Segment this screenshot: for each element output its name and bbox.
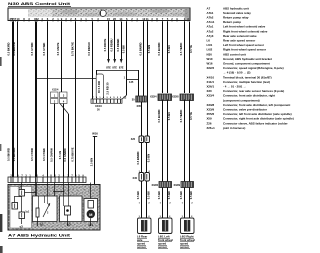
connector X33/4 bbox=[150, 90, 172, 100]
wires: N30 pins to A7 connector strip (left group) bbox=[7, 22, 48, 178]
connector X53 bbox=[131, 136, 150, 143]
svg-text:X4/10: X4/10 bbox=[207, 75, 215, 79]
svg-text:0.5 GY/BK: 0.5 GY/BK bbox=[42, 42, 46, 55]
solenoid valve A7y2 bbox=[11, 196, 22, 209]
svg-text:ABS control unit: ABS control unit bbox=[223, 52, 246, 56]
svg-text:Connector, right front axle di: Connector, right front axle distributor … bbox=[223, 117, 294, 121]
svg-text:X30: X30 bbox=[133, 177, 138, 180]
svg-text:0.5 BN/RD: 0.5 BN/RD bbox=[139, 42, 143, 55]
connector X33/8 bbox=[172, 90, 194, 100]
svg-text:A7y2: A7y2 bbox=[207, 29, 214, 33]
svg-text:0.5 BK: 0.5 BK bbox=[157, 191, 161, 199]
svg-text:y3: y3 bbox=[20, 224, 24, 228]
svg-text:0.5 YE: 0.5 YE bbox=[189, 112, 193, 120]
svg-text:Z26: Z26 bbox=[131, 138, 136, 141]
wire: bus to A7 strip junction bbox=[37, 78, 96, 80]
svg-text:Connector, valve pre-distribut: Connector, valve pre-distributor bbox=[223, 108, 268, 112]
svg-text:0.5 BK: 0.5 BK bbox=[189, 191, 193, 199]
svg-text:0.5 GN/WH: 0.5 GN/WH bbox=[50, 148, 54, 162]
A7 inner panel left bbox=[10, 187, 32, 229]
svg-text:joint in harness): joint in harness) bbox=[222, 126, 245, 130]
svg-text:0.5 BN: 0.5 BN bbox=[146, 154, 150, 162]
relay A7k1 bbox=[33, 183, 58, 227]
svg-text:L6/2: L6/2 bbox=[207, 48, 213, 52]
wires X30 to sensor L6 bbox=[136, 181, 150, 218]
svg-text:L6/1: L6/1 bbox=[207, 43, 213, 47]
svg-text:0.5 BK: 0.5 BK bbox=[167, 191, 171, 199]
wire to terminal 87E (1) bbox=[103, 22, 111, 70]
wires N30 pins 1/3 down (L6/2 circuit) bbox=[179, 22, 193, 94]
svg-text:X11/4: X11/4 bbox=[207, 80, 215, 84]
speed sensor L6/2 bbox=[181, 218, 195, 234]
svg-text:X35: X35 bbox=[137, 105, 142, 108]
svg-text:A7m1: A7m1 bbox=[207, 20, 215, 24]
svg-text:X33/8: X33/8 bbox=[172, 95, 179, 98]
svg-text:0.75 BK/YE: 0.75 BK/YE bbox=[71, 147, 75, 161]
svg-text:Connector, speed signal (RA/en: Connector, speed signal (RA/engine, 8-po… bbox=[223, 66, 284, 70]
svg-text:2.5 BN: 2.5 BN bbox=[90, 158, 94, 166]
wire X11/4 pin 4 down bbox=[58, 104, 63, 178]
ground W16 bbox=[90, 132, 99, 185]
svg-text:Return pump relay: Return pump relay bbox=[223, 16, 249, 20]
A7 ABS hydraulic unit box bbox=[8, 185, 100, 231]
diagonal wire X11/4 to A7 bbox=[60, 104, 69, 178]
svg-text:Connector, multiple function (: Connector, multiple function (test) bbox=[223, 80, 270, 84]
svg-text:0.5 BK: 0.5 BK bbox=[121, 45, 125, 53]
svg-text:Terminal block, terminal 30 (6: Terminal block, terminal 30 (61e/87) bbox=[223, 75, 272, 79]
svg-text:0.5 BK: 0.5 BK bbox=[179, 191, 183, 199]
svg-text:- 4 → 01 - 2/91 →: - 4 → 01 - 2/91 → bbox=[223, 85, 246, 89]
wires X33/8 to X33/9 bbox=[179, 100, 193, 182]
wires X33/6 to sensor L6/1 bbox=[157, 188, 171, 219]
svg-text:Z26: Z26 bbox=[207, 121, 212, 125]
svg-text:0.5 GN/RD: 0.5 GN/RD bbox=[63, 148, 67, 161]
wires X33/9 to sensor L6/2 bbox=[179, 188, 193, 219]
terminal 30 label box bbox=[96, 74, 103, 99]
svg-text:X59: X59 bbox=[207, 117, 213, 121]
wire pin 6 to X4/10 bbox=[121, 22, 126, 100]
svg-text:Left front wheel solenoid valv: Left front wheel solenoid valve bbox=[223, 25, 266, 29]
svg-text:30 0.5 RD: 30 0.5 RD bbox=[97, 81, 101, 93]
wire pin 9 to connector X11/4 bbox=[56, 22, 61, 93]
svg-text:135: 135 bbox=[129, 80, 134, 84]
wires N30 pins 12/11 down (L6 circuit) bbox=[139, 22, 151, 137]
svg-text:W10: W10 bbox=[207, 57, 213, 61]
svg-text:Solenoid valve relay: Solenoid valve relay bbox=[223, 11, 251, 15]
bus riser bbox=[96, 70, 139, 79]
label: N30 ABS Control Unit bbox=[8, 1, 71, 7]
svg-text:1y1: 1y1 bbox=[25, 210, 30, 213]
svg-text:X33/4: X33/4 bbox=[207, 94, 215, 98]
svg-text:0.5 BN/RD: 0.5 BN/RD bbox=[136, 151, 140, 164]
svg-text:0.5 BU: 0.5 BU bbox=[167, 112, 171, 120]
svg-text:N30 ABS Control Unit: N30 ABS Control Unit bbox=[8, 1, 71, 6]
svg-text:0.5 GN: 0.5 GN bbox=[58, 151, 62, 160]
solenoid valve A7y3 bbox=[19, 196, 30, 229]
svg-text:0.5 BK/RD: 0.5 BK/RD bbox=[7, 42, 11, 55]
wire pin 5 to X4/10 strip bbox=[87, 22, 93, 100]
svg-text:0.5 BK/WH: 0.5 BK/WH bbox=[12, 42, 16, 56]
speed sensor L6/1 bbox=[159, 218, 173, 234]
connector X30 bbox=[133, 171, 151, 181]
solenoid valve A7y1 bbox=[18, 183, 25, 197]
svg-text:(component compartment): (component compartment) bbox=[223, 98, 260, 102]
svg-text:X22/2: X22/2 bbox=[207, 66, 215, 70]
wires N30 pins 7/5 down (L6/1 circuit) bbox=[157, 22, 171, 94]
svg-text:Return pump: Return pump bbox=[223, 20, 241, 24]
svg-text:X30: X30 bbox=[207, 89, 213, 93]
svg-text:0.5 YE/RD: 0.5 YE/RD bbox=[179, 110, 183, 123]
connector X11/4 bbox=[51, 89, 68, 104]
svg-text:0.5 GN/YE: 0.5 GN/YE bbox=[56, 42, 60, 55]
svg-text:0.5 GY/BK: 0.5 GY/BK bbox=[42, 148, 46, 161]
svg-text:87E: 87E bbox=[119, 66, 124, 70]
svg-text:N30: N30 bbox=[207, 52, 213, 56]
svg-text:Connector, front axle distribu: Connector, front axle distributor, left … bbox=[223, 103, 290, 107]
svg-text:0.5 BK: 0.5 BK bbox=[146, 191, 150, 199]
pin numbers sensor L6/1 bbox=[160, 216, 171, 218]
svg-text:X4/10: X4/10 bbox=[95, 104, 102, 108]
svg-text:Connector sleeve, ABS failure: Connector sleeve, ABS failure indicator … bbox=[223, 121, 289, 125]
label L6 Rear axle speed sensor bbox=[137, 234, 149, 249]
svg-text:0.5 GY/RD: 0.5 GY/RD bbox=[30, 148, 34, 161]
svg-text:87E: 87E bbox=[106, 66, 111, 70]
svg-text:Connector, left front axle dis: Connector, left front axle distributor (… bbox=[223, 112, 292, 116]
label A7 ABS Hydraulic Unit bbox=[8, 233, 72, 239]
wires X33/4 to X33/6 bbox=[157, 100, 171, 182]
speed sensor L6 bbox=[138, 218, 152, 234]
wire to terminal 87E (3) bbox=[116, 22, 124, 70]
svg-text:0.75 BK/YE: 0.75 BK/YE bbox=[71, 42, 75, 56]
svg-text:Rear axle speed sensor: Rear axle speed sensor bbox=[223, 39, 256, 43]
terminal strip X4/10 bbox=[91, 96, 127, 111]
wire bus down to X35 bbox=[138, 70, 140, 96]
pin 1 stub and node 135 bbox=[124, 77, 139, 84]
svg-text:Right front wheel solenoid val: Right front wheel solenoid valve bbox=[223, 29, 268, 33]
svg-text:W16: W16 bbox=[92, 132, 98, 136]
wires X35 to X53 bbox=[142, 102, 148, 137]
svg-text:0.5 RD/BK: 0.5 RD/BK bbox=[116, 38, 120, 51]
svg-text:Rear axle solenoid valve: Rear axle solenoid valve bbox=[223, 34, 257, 38]
svg-text:k1: k1 bbox=[40, 222, 44, 226]
svg-text:0.5 BU/RD: 0.5 BU/RD bbox=[157, 109, 161, 122]
label L6/2 Right front wheel speed sensor bbox=[180, 234, 195, 249]
svg-text:m1: m1 bbox=[89, 223, 94, 227]
svg-text:L6: L6 bbox=[207, 39, 211, 43]
svg-text:2.5 RD 30: 2.5 RD 30 bbox=[105, 82, 109, 95]
svg-text:X26/1: X26/1 bbox=[207, 85, 215, 89]
svg-text:X11/4: X11/4 bbox=[52, 89, 59, 92]
svg-text:A7k2: A7k2 bbox=[207, 16, 214, 20]
svg-text:Ground, component compartment: Ground, component compartment bbox=[223, 62, 270, 66]
pin numbers sensor L6 bbox=[139, 216, 151, 218]
legend table bbox=[207, 6, 294, 130]
N30 ABS control unit box bbox=[8, 8, 190, 21]
svg-text:X55/6: X55/6 bbox=[207, 112, 215, 116]
relay A7k2 bbox=[55, 183, 83, 227]
svg-text:0.5 BK/RD: 0.5 BK/RD bbox=[7, 148, 11, 161]
svg-text:0.5 BK/WH: 0.5 BK/WH bbox=[12, 148, 16, 162]
svg-text:X33/9: X33/9 bbox=[207, 108, 215, 112]
A7 connector strip bbox=[8, 174, 86, 182]
svg-text:X33/4: X33/4 bbox=[150, 95, 157, 98]
wires X53 to X30 bbox=[136, 143, 150, 173]
svg-text:0.5 YE/RD: 0.5 YE/RD bbox=[179, 43, 183, 56]
svg-text:A7 ABS Hydraulic Unit: A7 ABS Hydraulic Unit bbox=[8, 233, 71, 238]
svg-text:0.5 YE: 0.5 YE bbox=[189, 45, 193, 53]
wire label 2.5 RD bbox=[105, 82, 109, 95]
svg-text:Connector, rear axle sensor ha: Connector, rear axle sensor harness (2-p… bbox=[223, 89, 284, 93]
svg-text:A7: A7 bbox=[207, 6, 211, 10]
svg-text:A7y1: A7y1 bbox=[207, 25, 214, 29]
label L6/1 Left front wheel speed sensor bbox=[158, 234, 173, 249]
wire to terminal 87E (2) bbox=[109, 22, 117, 70]
svg-text:Right front wheel speed sensor: Right front wheel speed sensor bbox=[223, 48, 267, 52]
svg-text:X33/6: X33/6 bbox=[151, 184, 158, 187]
svg-text:87E: 87E bbox=[112, 66, 117, 70]
connector X33/6 bbox=[151, 180, 171, 188]
svg-text:W16: W16 bbox=[207, 62, 213, 66]
N30 pin numbers bbox=[10, 17, 190, 22]
svg-text:ABS hydraulic unit: ABS hydraulic unit bbox=[223, 6, 249, 10]
svg-text:0.5 BN: 0.5 BN bbox=[147, 45, 151, 53]
connector X35 bbox=[132, 96, 147, 108]
svg-text:Ground, ABS hydraulic unit bra: Ground, ABS hydraulic unit bracket bbox=[223, 57, 272, 61]
connector X33/9 bbox=[173, 180, 193, 188]
svg-text:A7y3: A7y3 bbox=[207, 34, 214, 38]
svg-text:0.5 BK: 0.5 BK bbox=[136, 191, 140, 199]
svg-text:A7k1: A7k1 bbox=[207, 11, 214, 15]
wire X11/4 pin 2 down bbox=[50, 104, 55, 178]
svg-text:X33/8: X33/8 bbox=[207, 103, 215, 107]
svg-text:0.5 BU/RD: 0.5 BU/RD bbox=[157, 42, 161, 55]
svg-text:X33/9: X33/9 bbox=[173, 184, 180, 187]
A7 internal bus wires bbox=[25, 192, 91, 227]
wire pin 8 to A7 strip bbox=[71, 22, 76, 178]
svg-text:Left front wheel speed sensor: Left front wheel speed sensor bbox=[223, 43, 265, 47]
svg-text:0.5 RD/YE: 0.5 RD/YE bbox=[103, 38, 107, 51]
return pump A7m1 bbox=[84, 183, 98, 228]
svg-text:0.5 RD/GN: 0.5 RD/GN bbox=[87, 42, 91, 55]
svg-text:Connector, front axle distribu: Connector, front axle distributor, right bbox=[223, 94, 275, 98]
svg-text:Z26+1: Z26+1 bbox=[207, 126, 216, 130]
svg-text:0.5 RD/BU: 0.5 RD/BU bbox=[109, 38, 113, 51]
pin numbers sensor L6/2 bbox=[182, 216, 193, 218]
svg-text:0.5 GY/RD: 0.5 GY/RD bbox=[30, 42, 34, 55]
screw symbol on N30 box bbox=[100, 10, 106, 16]
svg-text:→ 4 (19) - 9.50 → (2): → 4 (19) - 9.50 → (2) bbox=[223, 71, 251, 75]
svg-text:0.5 BU: 0.5 BU bbox=[167, 45, 171, 53]
scan artifact marks (left edge) bbox=[0, 57, 3, 253]
